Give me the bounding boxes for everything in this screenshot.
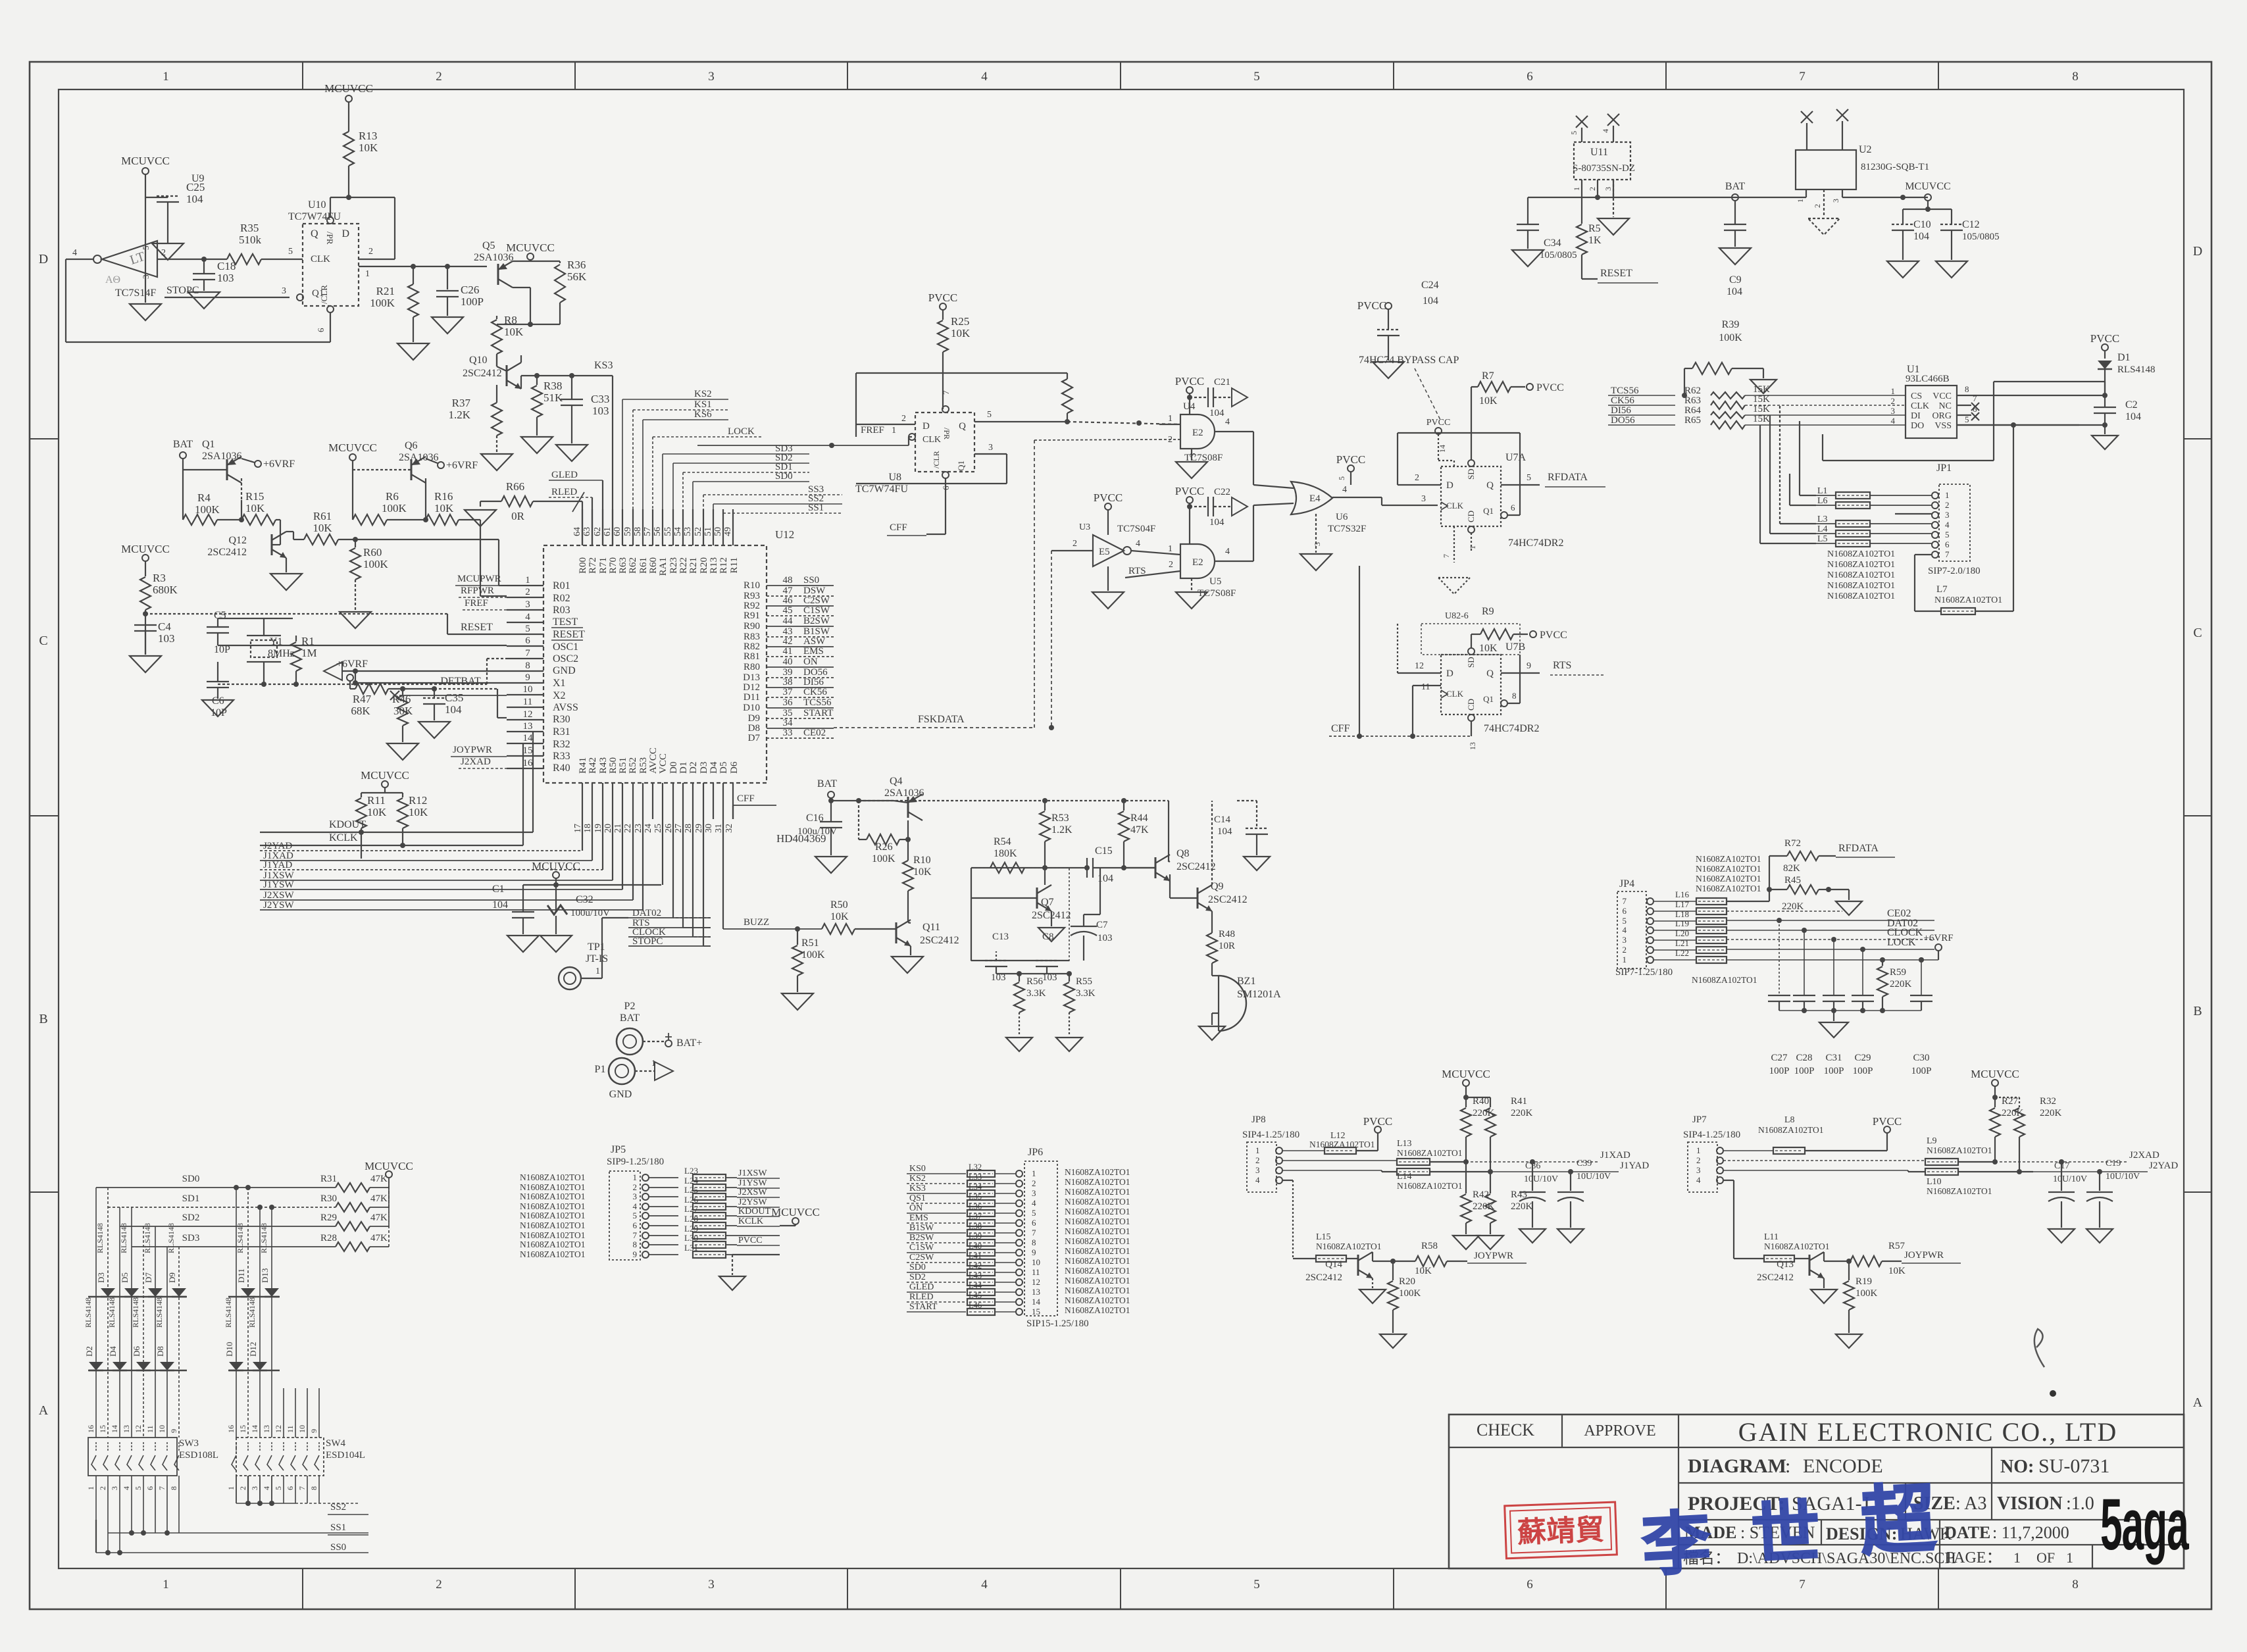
svg-text:C8: C8	[1042, 932, 1054, 942]
svg-text:74HC74 BYPASS CAP: 74HC74 BYPASS CAP	[1359, 355, 1459, 366]
diode matrix2 wire col 2	[247, 1188, 249, 1438]
svg-text:R11: R11	[367, 794, 386, 807]
svg-text:SS1: SS1	[330, 1522, 346, 1533]
svg-text:R64: R64	[1684, 405, 1702, 416]
svg-text:R35: R35	[240, 222, 259, 234]
diode matrix wire col 7	[166, 1247, 168, 1438]
svg-text:Q: Q	[1486, 668, 1494, 679]
svg-text:B1SW: B1SW	[909, 1223, 934, 1233]
svg-text:N1608ZA102TO1: N1608ZA102TO1	[1065, 1216, 1130, 1226]
svg-text:5: 5	[1527, 473, 1531, 483]
svg-text:19: 19	[593, 824, 603, 833]
svg-text:103: 103	[592, 405, 609, 417]
svg-text:13: 13	[262, 1425, 271, 1433]
svg-text:0R: 0R	[511, 510, 525, 522]
ground (C18)	[188, 292, 220, 309]
svg-text:100P: 100P	[1794, 1066, 1815, 1076]
svg-text:N1608ZA102TO1: N1608ZA102TO1	[520, 1239, 586, 1249]
svg-text:C: C	[39, 634, 47, 648]
svg-text:+6VRF: +6VRF	[446, 460, 478, 471]
red approval stamp	[1505, 1502, 1617, 1559]
svg-text:R9: R9	[1482, 606, 1494, 617]
ground (C6)	[202, 700, 234, 716]
svg-text:6: 6	[316, 328, 326, 332]
svg-text:U11: U11	[1590, 147, 1608, 158]
svg-text:R41: R41	[578, 757, 588, 774]
svg-text:J1XAD: J1XAD	[1600, 1150, 1630, 1161]
diode D6 RLS4148	[136, 1362, 151, 1370]
svg-text:12: 12	[1032, 1277, 1040, 1287]
svg-text:62: 62	[593, 527, 603, 536]
U12 bottom pin 29	[703, 783, 704, 819]
wire U1 VCC rail to D1	[1993, 382, 1994, 395]
svg-text:13: 13	[1468, 742, 1477, 750]
svg-text:B: B	[39, 1012, 47, 1026]
wire U7B CLK feed	[1412, 686, 1413, 736]
ground (U11 pin3)	[1613, 180, 1614, 217]
svg-text:X2: X2	[553, 690, 566, 701]
svg-text:C21: C21	[1214, 377, 1230, 388]
svg-text:4: 4	[1945, 520, 1950, 530]
rows CE02 DAT02 CLOCK LOCK from JP4 inductors	[1727, 920, 1934, 921]
svg-text:7: 7	[525, 648, 530, 659]
svg-text:7: 7	[941, 390, 951, 395]
svg-text:34: 34	[783, 718, 794, 728]
ground (Q12)	[270, 574, 302, 590]
svg-text:L17: L17	[1675, 899, 1689, 909]
svg-text:J2YSW: J2YSW	[738, 1197, 767, 1207]
wires MCU D pins down to stack	[673, 917, 711, 918]
svg-text:9: 9	[309, 1429, 318, 1433]
svg-text:D4: D4	[709, 761, 719, 774]
svg-text:14: 14	[1438, 445, 1447, 453]
svg-text:U8: U8	[888, 472, 901, 483]
U12 bottom pin 17	[582, 783, 583, 819]
svg-text:5: 5	[525, 624, 530, 634]
svg-text:R40: R40	[553, 763, 570, 774]
svg-text:VCC: VCC	[658, 753, 669, 774]
svg-text:3: 3	[988, 443, 993, 453]
svg-text:D5: D5	[120, 1272, 130, 1283]
ground (R39)	[1750, 380, 1777, 393]
svg-text:14: 14	[1032, 1297, 1041, 1307]
svg-text:D7: D7	[748, 733, 761, 743]
svg-text:N1608ZA102TO1: N1608ZA102TO1	[1065, 1305, 1130, 1315]
svg-text:C14: C14	[1214, 814, 1231, 825]
switch SW4 ESD104L	[236, 1438, 324, 1476]
svg-text:43: 43	[783, 626, 793, 637]
svg-text:N1608ZA102TO1: N1608ZA102TO1	[520, 1201, 586, 1211]
svg-text:30: 30	[704, 824, 714, 833]
resistor R1 1M	[295, 636, 297, 641]
power MCUVCC below MCU with C1 C32	[553, 872, 559, 878]
svg-text:2SC2412: 2SC2412	[1757, 1272, 1794, 1283]
svg-text:R59: R59	[1890, 967, 1906, 978]
U2 pins down	[1805, 189, 1807, 197]
svg-text:U5: U5	[1209, 576, 1221, 587]
svg-text:47: 47	[783, 586, 794, 596]
svg-text:J2XSW: J2XSW	[738, 1188, 767, 1197]
wire U1 VSS rail	[1957, 424, 2105, 426]
svg-text:104: 104	[1423, 295, 1438, 307]
svg-text:R20: R20	[699, 557, 709, 574]
ground (C17)	[2048, 1229, 2075, 1243]
svg-text:N1608ZA102TO1: N1608ZA102TO1	[520, 1249, 586, 1259]
svg-text:D8: D8	[155, 1346, 165, 1357]
diode D1 RLS4148	[2098, 361, 2112, 369]
ground (C32)	[540, 936, 572, 952]
svg-text:100K: 100K	[370, 297, 395, 309]
svg-text:180K: 180K	[994, 848, 1017, 859]
svg-text:BUZZ: BUZZ	[744, 917, 769, 928]
svg-text:C1SW: C1SW	[803, 605, 830, 616]
svg-text:2SC2412: 2SC2412	[207, 547, 247, 558]
svg-text:KCLK: KCLK	[329, 832, 358, 843]
svg-text:R13: R13	[359, 130, 377, 142]
filter cap risers	[1777, 918, 1782, 923]
svg-text:BAT: BAT	[620, 1013, 640, 1024]
svg-text:5: 5	[1253, 70, 1260, 84]
svg-text:52: 52	[694, 527, 703, 536]
terminal +6VRF (Q6)	[438, 462, 444, 468]
svg-text:2: 2	[1813, 204, 1822, 208]
svg-text:D4: D4	[108, 1346, 118, 1357]
svg-text:START: START	[803, 708, 833, 718]
svg-text:R21: R21	[688, 557, 699, 574]
svg-text:5: 5	[1945, 530, 1950, 539]
svg-text:2: 2	[1696, 1155, 1701, 1165]
ground (U2 pin2)	[1808, 218, 1840, 235]
svg-text:1: 1	[892, 426, 896, 436]
buzzer BZ1 SM1201A	[1219, 976, 1246, 1031]
svg-text:RLS4148: RLS4148	[166, 1223, 176, 1253]
svg-text:SIP4-1.25/180: SIP4-1.25/180	[1242, 1130, 1300, 1140]
svg-text:MCUVCC: MCUVCC	[121, 543, 170, 555]
svg-text:BAT: BAT	[1725, 181, 1745, 192]
svg-text:R3: R3	[153, 572, 166, 584]
ground (R19)	[1836, 1334, 1862, 1348]
wire U10 Q1 bottom loop	[330, 313, 331, 342]
wire U7A loop and pins	[1398, 432, 1520, 434]
svg-text:104: 104	[1209, 408, 1224, 418]
U12 bottom pin 24	[652, 783, 653, 819]
svg-text:100P: 100P	[1911, 1066, 1932, 1076]
svg-text:R42: R42	[588, 757, 598, 774]
svg-text:3: 3	[1603, 187, 1613, 191]
wire U7A Q to RFDATA	[1501, 484, 1540, 486]
svg-text:3: 3	[1313, 542, 1322, 546]
svg-text:KS0: KS0	[909, 1164, 926, 1174]
svg-text:DI56: DI56	[803, 677, 824, 688]
svg-text:+6VRF: +6VRF	[1923, 933, 1953, 943]
capacitor C35 104	[434, 689, 435, 697]
svg-text:17: 17	[573, 824, 583, 833]
svg-text:J1XSW: J1XSW	[738, 1168, 767, 1178]
power PVCC (R25)	[940, 303, 946, 310]
svg-text:D13: D13	[260, 1268, 270, 1283]
svg-text:C32: C32	[576, 894, 593, 905]
wire Q10 collector KS3 rail	[520, 355, 522, 363]
svg-text:JP8: JP8	[1251, 1114, 1266, 1125]
svg-text:J2XAD: J2XAD	[461, 757, 491, 767]
svg-text:4: 4	[1342, 485, 1347, 495]
svg-text:R81: R81	[744, 651, 760, 662]
svg-text:100K: 100K	[801, 949, 825, 961]
svg-text:RLS4148: RLS4148	[119, 1223, 128, 1253]
svg-text:RLS4148: RLS4148	[155, 1297, 164, 1328]
svg-text:2: 2	[98, 1486, 107, 1490]
svg-text:SM1201A: SM1201A	[1237, 989, 1281, 1000]
AND gate U5 TC7S08F	[1180, 544, 1215, 578]
inverter U9 TC7S14F	[102, 241, 157, 277]
svg-text:R01: R01	[553, 580, 570, 591]
U12 bottom pin 20	[612, 783, 613, 819]
svg-text:51: 51	[703, 527, 713, 536]
ground (C9)	[1719, 248, 1751, 264]
svg-text:5: 5	[1623, 916, 1627, 926]
U12 bottom pin 27	[682, 783, 684, 819]
capacitor C33 103	[571, 376, 572, 399]
svg-text:2: 2	[525, 587, 530, 597]
ground arrow (P1)	[655, 1062, 673, 1080]
svg-text:R31: R31	[320, 1174, 337, 1184]
svg-text:100K: 100K	[382, 502, 407, 514]
svg-text:D9: D9	[748, 713, 760, 724]
svg-text:L8: L8	[1784, 1115, 1795, 1125]
svg-text:8: 8	[169, 1486, 178, 1490]
svg-text:8: 8	[525, 661, 530, 671]
svg-text:4: 4	[1891, 416, 1896, 426]
svg-text:16: 16	[523, 758, 534, 768]
svg-text:R37: R37	[452, 397, 471, 409]
wire Q13 collector to R57	[1823, 1252, 1825, 1261]
svg-text:R53: R53	[1051, 813, 1069, 824]
svg-text:BZ1: BZ1	[1237, 976, 1255, 987]
svg-text:MCUVCC: MCUVCC	[1905, 181, 1950, 192]
svg-text:3.3K: 3.3K	[1076, 988, 1096, 999]
diode D12 RLS4148	[253, 1362, 267, 1370]
U12 left pin 1	[507, 585, 543, 586]
svg-text:7: 7	[1623, 896, 1627, 906]
svg-text:JOYPWR: JOYPWR	[1474, 1251, 1513, 1261]
svg-text:N1608ZA102TO1: N1608ZA102TO1	[1065, 1236, 1130, 1246]
svg-text:R63: R63	[618, 557, 628, 574]
ground (C1)	[507, 936, 539, 952]
svg-text:3: 3	[633, 1191, 638, 1201]
svg-text:R51: R51	[801, 938, 819, 949]
wire Q5 collector/emitter	[513, 261, 530, 262]
svg-text:R55: R55	[1076, 976, 1092, 987]
svg-text:8: 8	[2072, 1578, 2079, 1591]
svg-text:L22: L22	[1675, 948, 1689, 958]
svg-text:R00: R00	[578, 557, 588, 574]
svg-text:61: 61	[603, 527, 613, 536]
capacitor C34 105/0805	[1527, 197, 1528, 224]
svg-text:J1YSW: J1YSW	[263, 880, 295, 890]
svg-text:ESD104L: ESD104L	[326, 1450, 365, 1461]
wire Q11 emitter ground	[910, 946, 911, 955]
svg-text:C26: C26	[461, 284, 479, 296]
ground (R37)	[481, 454, 513, 470]
svg-text:SW3: SW3	[179, 1438, 199, 1449]
power MCUVCC (Q5)	[527, 253, 534, 260]
svg-text:DO56: DO56	[1611, 415, 1635, 426]
svg-text:10K: 10K	[830, 911, 849, 922]
svg-text:81230G-SQB-T1: 81230G-SQB-T1	[1861, 162, 1929, 172]
svg-text:MCUVCC: MCUVCC	[1971, 1068, 2019, 1080]
svg-text:13: 13	[122, 1425, 131, 1433]
svg-text:R02: R02	[553, 593, 570, 604]
capacitor C18	[201, 257, 207, 262]
svg-text:S-80735SN-DZ: S-80735SN-DZ	[1573, 163, 1635, 174]
svg-text:+6VRF: +6VRF	[263, 459, 295, 470]
svg-text:C27: C27	[1771, 1053, 1788, 1063]
svg-text:D: D	[341, 228, 349, 239]
svg-text:2: 2	[1169, 560, 1173, 570]
svg-text:N1608ZA102TO1: N1608ZA102TO1	[1827, 570, 1895, 580]
svg-text:N1608ZA102TO1: N1608ZA102TO1	[1397, 1148, 1463, 1158]
svg-text:R31: R31	[553, 726, 570, 738]
svg-text:10: 10	[1032, 1257, 1040, 1267]
wire BAT to U2	[1735, 197, 1806, 198]
svg-text:A: A	[2193, 1395, 2203, 1410]
ground (R21)	[397, 343, 429, 360]
svg-text:RFPWR: RFPWR	[461, 586, 494, 596]
svg-text:PVCC: PVCC	[1175, 375, 1204, 388]
svg-text:5aga: 5aga	[2100, 1484, 2189, 1565]
svg-text:L14: L14	[1397, 1172, 1412, 1182]
svg-text:100K: 100K	[1856, 1288, 1878, 1299]
svg-text:RLS4148: RLS4148	[236, 1223, 245, 1253]
svg-text:U2: U2	[1859, 144, 1872, 155]
svg-text:SIP7-1.25/180: SIP7-1.25/180	[1615, 967, 1673, 978]
svg-text:Q1: Q1	[202, 439, 215, 450]
power MCUVCC (R13)	[345, 95, 352, 102]
capacitor C9 104	[1734, 201, 1736, 224]
svg-text:N1608ZA102TO1: N1608ZA102TO1	[1065, 1246, 1130, 1256]
svg-text:R61: R61	[313, 510, 332, 522]
svg-text:5: 5	[288, 247, 293, 257]
svg-text:4: 4	[72, 248, 77, 258]
svg-text:CFF: CFF	[737, 793, 755, 804]
svg-text:6: 6	[1623, 906, 1627, 916]
U12 left pin 7	[507, 658, 543, 659]
svg-text:N1608ZA102TO1: N1608ZA102TO1	[1827, 560, 1895, 570]
svg-text:RESET: RESET	[553, 629, 585, 640]
svg-text:4: 4	[981, 1578, 988, 1591]
svg-text:SS1: SS1	[808, 503, 824, 513]
wire bottom rail of osc	[971, 960, 1069, 961]
power PVCC (U7A pin14)	[1435, 428, 1442, 434]
U12 top pin 64	[582, 509, 583, 545]
svg-text:R26: R26	[875, 841, 893, 853]
svg-text:JOYPWR: JOYPWR	[453, 745, 492, 755]
svg-text:15K: 15K	[1753, 394, 1770, 405]
wire R61 to MCU MCUPWR	[355, 539, 499, 540]
no-connect X2 pin	[390, 691, 399, 700]
svg-text:8: 8	[2072, 70, 2079, 84]
svg-text:3: 3	[1032, 1188, 1036, 1198]
svg-text:R33: R33	[553, 751, 570, 762]
svg-text:N1608ZA102TO1: N1608ZA102TO1	[1934, 595, 2002, 605]
U12 left pin 2	[507, 597, 543, 598]
svg-text:220K: 220K	[1511, 1201, 1533, 1212]
resistor R5 1K	[1581, 197, 1582, 224]
svg-text:20: 20	[603, 824, 613, 833]
U12 right pin 48 SS0	[767, 585, 834, 586]
svg-text:R65: R65	[1684, 415, 1701, 426]
svg-text:1: 1	[1168, 414, 1173, 424]
svg-text:R60: R60	[363, 546, 382, 559]
wire Q12 collector to R61	[286, 531, 293, 532]
svg-text:D7: D7	[143, 1272, 153, 1283]
svg-text:1: 1	[1572, 187, 1581, 191]
svg-text:D11: D11	[236, 1268, 246, 1283]
svg-text:3: 3	[1831, 199, 1840, 203]
svg-text:14: 14	[110, 1425, 119, 1433]
svg-text:D5: D5	[719, 762, 729, 774]
svg-text:E5: E5	[1099, 547, 1110, 557]
svg-text:R83: R83	[744, 632, 760, 642]
diode matrix bars	[88, 1296, 187, 1297]
svg-text:E2: E2	[1192, 557, 1203, 568]
svg-text:Q13: Q13	[1777, 1259, 1794, 1270]
svg-text:/PR: /PR	[942, 428, 951, 439]
flip-flop U7B 74HC74DR2	[1441, 655, 1501, 714]
svg-text:10K: 10K	[951, 327, 971, 339]
svg-text:D6: D6	[132, 1346, 141, 1357]
svg-text:12: 12	[1415, 661, 1424, 671]
ground (C34)	[1512, 250, 1544, 266]
svg-text:N1608ZA102TO1: N1608ZA102TO1	[1065, 1256, 1130, 1266]
svg-text:SD: SD	[1466, 657, 1476, 668]
svg-text:10K: 10K	[1415, 1266, 1432, 1276]
power MCUVCC (R27 R32)	[1992, 1080, 1998, 1086]
ground (E5)	[1107, 566, 1109, 591]
resistor R3 680K	[142, 555, 149, 561]
U12 right pin 40 ON	[767, 666, 834, 668]
svg-text:GND: GND	[553, 665, 576, 676]
svg-text:QS1: QS1	[909, 1193, 926, 1203]
svg-text:4: 4	[633, 1201, 638, 1211]
svg-text:MCUVCC: MCUVCC	[361, 769, 409, 782]
ground (R60)	[340, 612, 371, 628]
diode D4 RLS4148	[113, 1362, 127, 1370]
svg-text:R32: R32	[553, 739, 570, 750]
svg-text:AΘ: AΘ	[105, 274, 120, 286]
ground (R45)	[1836, 901, 1862, 915]
ground (R20)	[1380, 1334, 1406, 1348]
svg-text:R41: R41	[1511, 1096, 1527, 1107]
svg-text:R30: R30	[320, 1193, 337, 1204]
svg-text:1: 1	[1696, 1145, 1701, 1155]
svg-text:10: 10	[157, 1425, 166, 1433]
ground (C19)	[2086, 1229, 2113, 1243]
svg-text:10K: 10K	[1888, 1266, 1906, 1276]
saga logo	[2100, 1484, 2189, 1565]
capacitor C6 10P	[217, 662, 218, 681]
svg-text:MCUVCC: MCUVCC	[532, 860, 580, 872]
svg-text:24: 24	[644, 824, 653, 833]
svg-text:MCUVCC: MCUVCC	[328, 441, 377, 454]
svg-text:2: 2	[1588, 187, 1597, 191]
svg-text:39: 39	[783, 667, 793, 678]
svg-text:12: 12	[274, 1425, 283, 1433]
svg-text:R62: R62	[628, 557, 638, 574]
svg-text:47K: 47K	[370, 1233, 388, 1243]
svg-text:22: 22	[623, 824, 633, 833]
svg-text:世: 世	[1750, 1495, 1822, 1574]
